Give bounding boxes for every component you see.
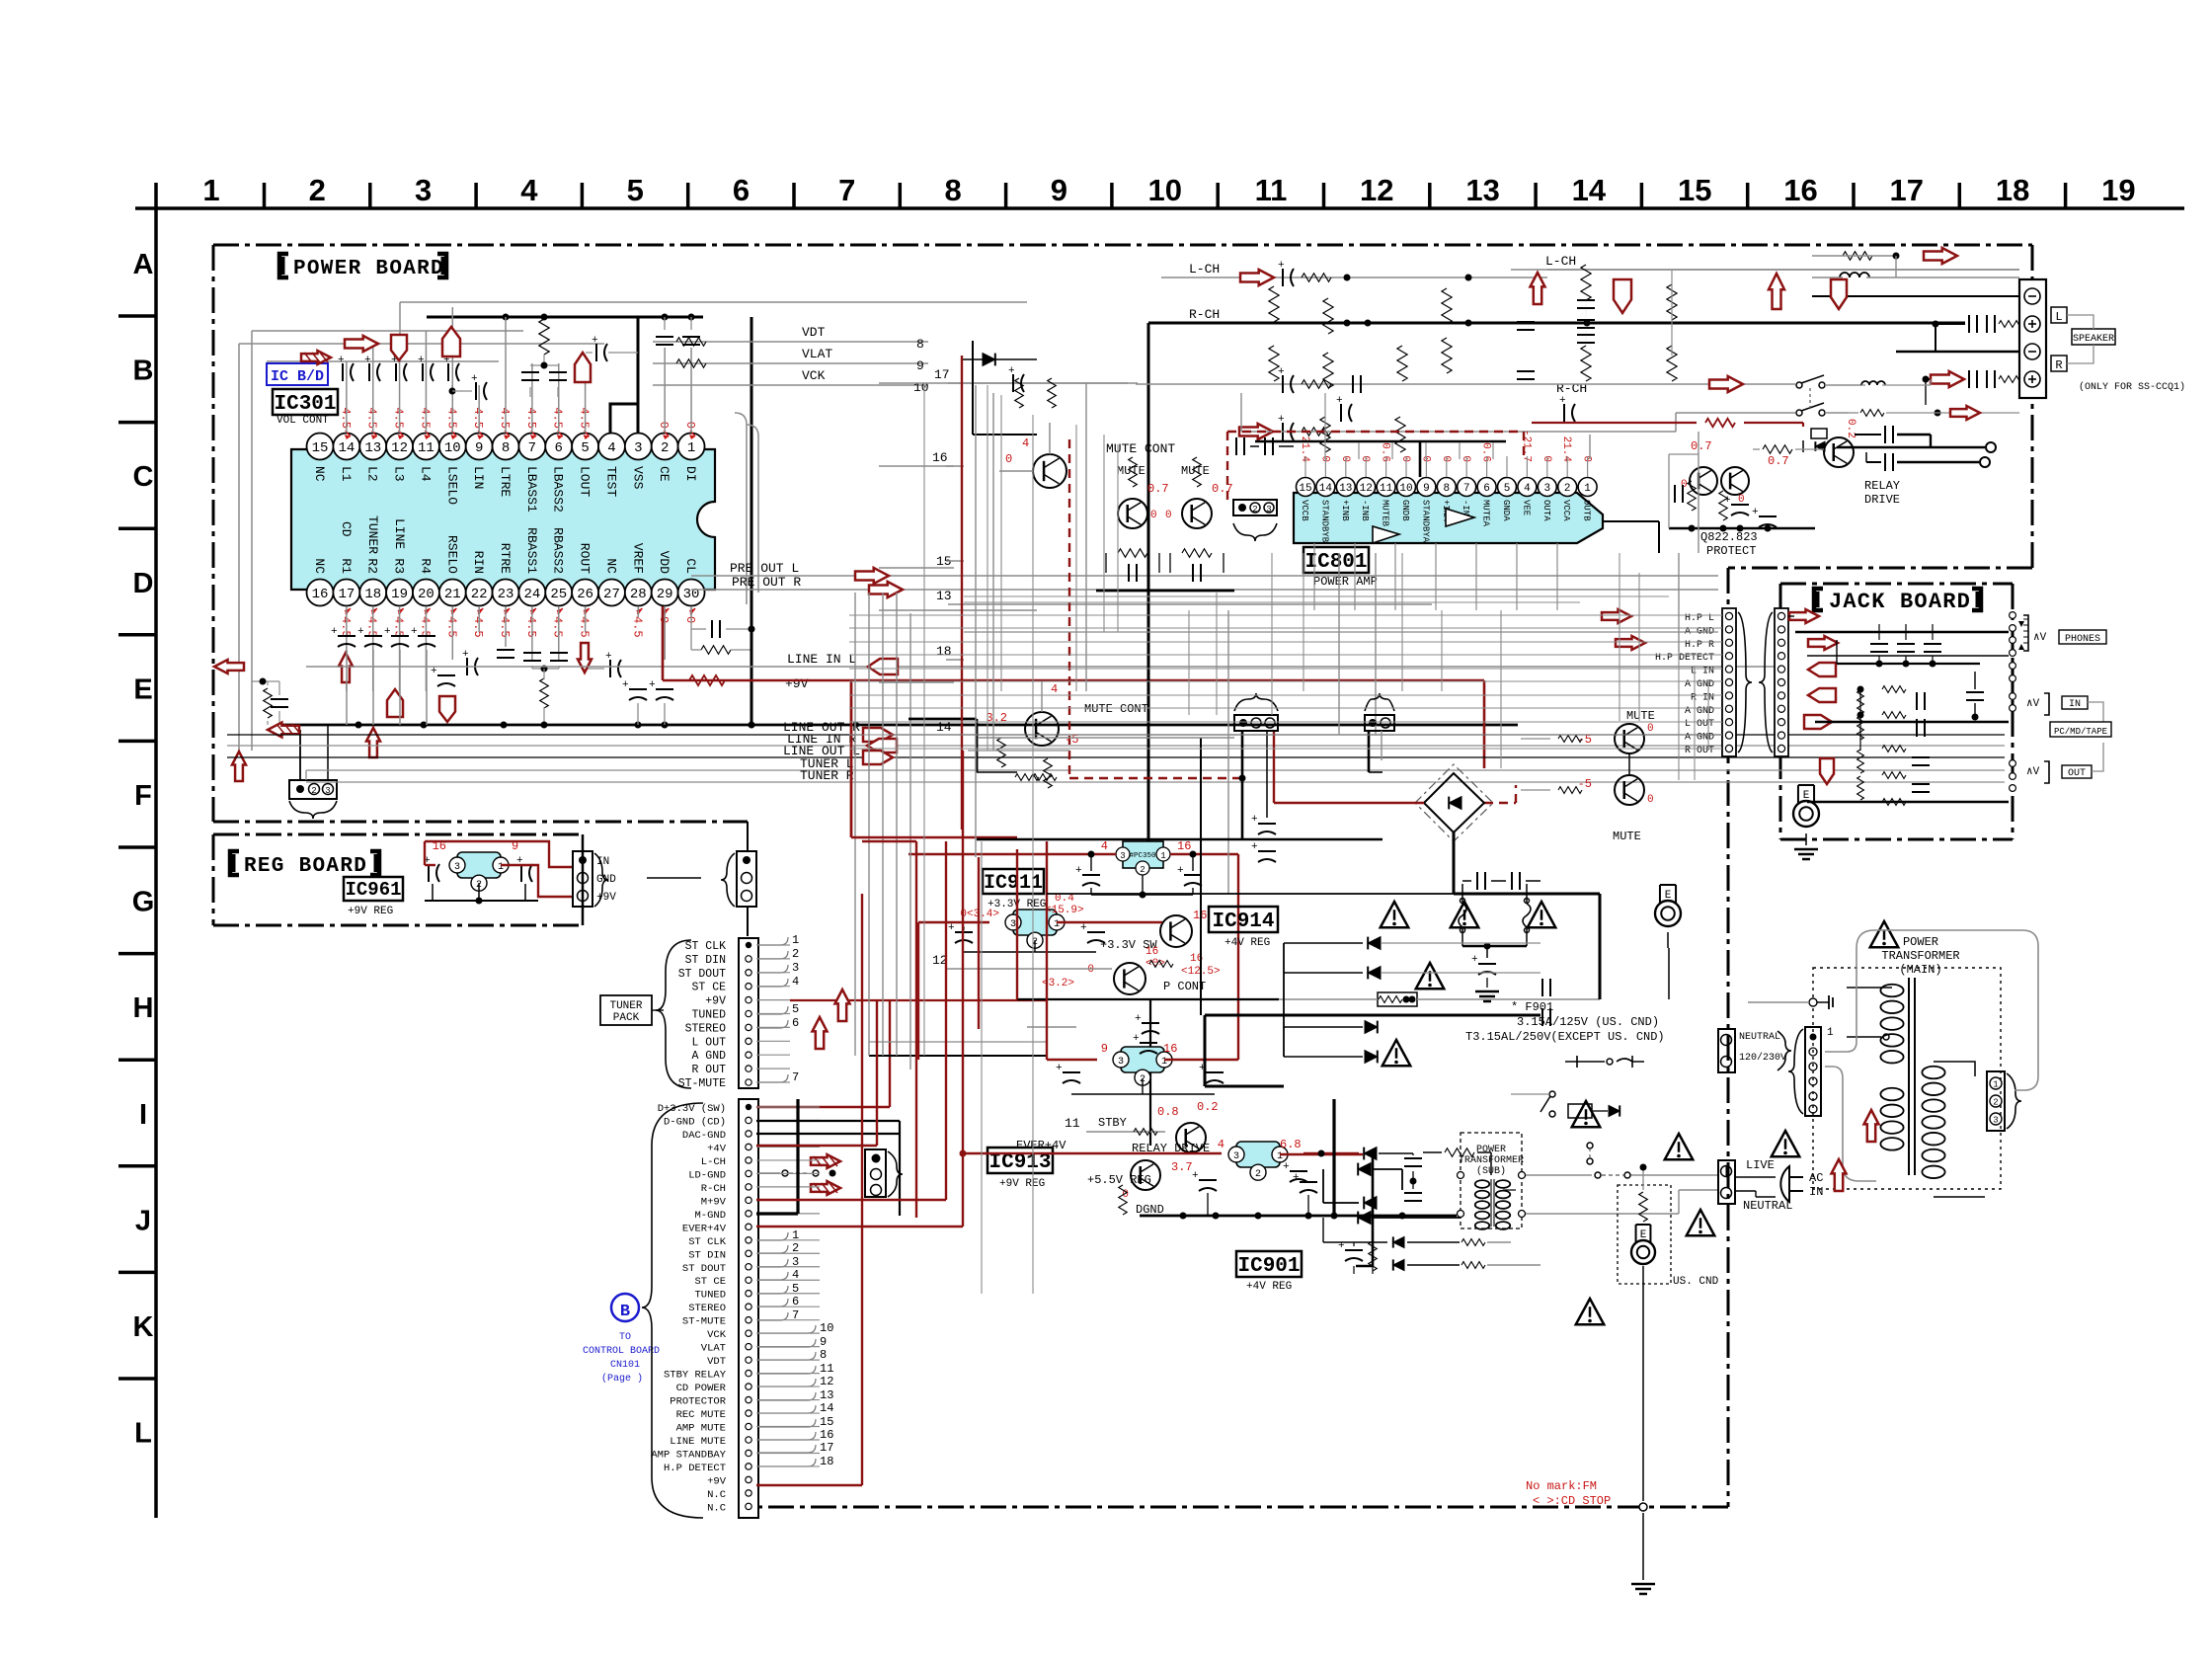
svg-text:+: + [1192, 1170, 1199, 1182]
transformer main connector [1788, 1027, 1834, 1116]
speaker zobel caps L [1933, 315, 2023, 333]
svg-text:6: 6 [555, 440, 563, 456]
PHONES label box [2059, 630, 2106, 645]
svg-text:3: 3 [1118, 1057, 1124, 1068]
relay drive net bottom [963, 1139, 1222, 1155]
svg-text:13: 13 [820, 1388, 833, 1402]
hatched arrow bus left [268, 723, 300, 738]
svg-text:VLAT: VLAT [701, 1343, 726, 1355]
svg-text:A GND: A GND [1685, 733, 1714, 744]
svg-text:ST DIN: ST DIN [688, 1249, 726, 1261]
svg-text:4.5: 4.5 [418, 407, 432, 429]
svg-text:0: 0 [1087, 964, 1094, 976]
svg-text:0.7: 0.7 [1147, 482, 1169, 496]
svg-text:17: 17 [934, 367, 950, 382]
resistor speaker feed top [1812, 248, 1957, 277]
svg-text:L-CH: L-CH [701, 1156, 726, 1168]
svg-text:K: K [133, 1311, 154, 1343]
svg-text:VCCB: VCCB [1300, 500, 1309, 521]
svg-text:21.4: 21.4 [1560, 436, 1572, 463]
svg-text:16: 16 [312, 587, 329, 602]
note only for SS-CCQ1 [2079, 381, 2185, 393]
net 12 line [932, 953, 1112, 969]
svg-text:NC: NC [312, 466, 327, 482]
IC301 pin 5 [572, 434, 598, 498]
node B to control board [583, 1294, 660, 1385]
svg-text:OUTA: OUTA [1541, 500, 1551, 521]
IC901 label [1236, 1251, 1302, 1293]
svg-text:VCCA: VCCA [1561, 500, 1571, 521]
svg-text:LINE MUTE: LINE MUTE [670, 1436, 726, 1448]
wire stubs from IC301 bottom pins [347, 606, 691, 691]
svg-text:VOL CONT: VOL CONT [276, 415, 329, 427]
svg-text:+: + [338, 355, 345, 366]
IC301 input select labels [339, 515, 407, 554]
transistor mute A [1117, 457, 1169, 528]
svg-text:LIVE: LIVE [1746, 1158, 1775, 1172]
svg-text:-5: -5 [1578, 777, 1592, 791]
svg-text:10: 10 [1147, 173, 1181, 207]
IC801 pin 4 [1518, 430, 1537, 515]
svg-text:Q822.823: Q822.823 [1700, 530, 1758, 544]
svg-text:1: 1 [498, 862, 504, 873]
diode rectifier stack IC901 [1303, 1148, 1491, 1266]
svg-text:EVER+4V: EVER+4V [1016, 1139, 1066, 1152]
svg-text:28: 28 [630, 587, 647, 602]
svg-text:POWER: POWER [1476, 1145, 1506, 1155]
net PRE OUT L [691, 561, 1718, 584]
svg-text:RBASS1: RBASS1 [524, 527, 539, 574]
IC301 pin 3 [625, 434, 652, 490]
SPEAKER box [2067, 315, 2115, 363]
grid ruler frame [118, 173, 2184, 1518]
transistor mute cont upper [999, 423, 1175, 488]
svg-text:3: 3 [1233, 1151, 1239, 1162]
svg-text:0: 0 [1647, 794, 1654, 806]
net VCK [653, 368, 929, 395]
IC801 power amp body [1294, 493, 1603, 543]
svg-text:16: 16 [1177, 839, 1191, 853]
svg-text:-INB: -INB [1360, 500, 1370, 521]
svg-text:CD POWER: CD POWER [676, 1383, 727, 1394]
mute transistor right A [1521, 723, 1654, 753]
P CONT bus [1017, 849, 1279, 1146]
svg-text:+: + [1724, 495, 1731, 507]
DGND bus [1192, 1170, 1317, 1216]
svg-text:H: H [133, 992, 154, 1024]
jack arrows [1602, 609, 1838, 784]
svg-text:0: 0 [1647, 723, 1654, 735]
transistor standby switch [1157, 1100, 1219, 1152]
svg-text:15: 15 [312, 440, 329, 456]
svg-text:4.5: 4.5 [578, 407, 592, 429]
svg-text:+: + [1080, 922, 1087, 934]
svg-text:CE: CE [657, 466, 671, 482]
svg-text:MUTE: MUTE [1626, 709, 1655, 723]
stack2 LD-GND dashed link [758, 1170, 836, 1177]
svg-text:PRE OUT R: PRE OUT R [732, 575, 801, 590]
svg-text:2: 2 [1993, 1098, 1998, 1108]
svg-text:LBASS2: LBASS2 [551, 466, 566, 513]
svg-text:9: 9 [475, 440, 483, 456]
wire rounded bus corners from IC301 to center [735, 383, 1128, 682]
svg-text:0.8: 0.8 [1157, 1105, 1179, 1119]
svg-text:NC: NC [603, 558, 618, 574]
IC301 pin voltage values [339, 407, 697, 637]
svg-text:MUTE: MUTE [1613, 830, 1641, 843]
IC961 label [344, 877, 403, 917]
IC801 pin 11 [1377, 442, 1395, 526]
net 14 line [978, 737, 1234, 739]
wire stubs from IC301 top pins [347, 307, 691, 433]
svg-text:1: 1 [202, 173, 219, 207]
red note CD STOP [1526, 1479, 1611, 1508]
svg-text:7: 7 [1463, 483, 1470, 495]
svg-text:11: 11 [418, 440, 434, 456]
net LINE OUT L [227, 744, 2005, 764]
relay switch contacts [1796, 375, 1861, 416]
stack2 arrows and CN [756, 1000, 903, 1197]
relay coil [1803, 419, 1856, 452]
IC301 pin 14 [333, 434, 359, 482]
svg-text:0: 0 [1339, 455, 1351, 462]
svg-text:8: 8 [502, 440, 510, 456]
connector CN 3pin near IC801 [1233, 500, 1277, 541]
svg-text:1: 1 [1827, 1027, 1834, 1039]
svg-text:E: E [133, 673, 152, 705]
svg-text:6.8: 6.8 [1280, 1138, 1302, 1151]
bottom pin red arrows [339, 643, 592, 722]
svg-text:16: 16 [820, 1428, 833, 1442]
relay drive output open terminal [1837, 426, 1996, 471]
svg-text:DI: DI [683, 466, 698, 482]
net VLAT [653, 347, 928, 373]
svg-text:NEUTRAL: NEUTRAL [1743, 1199, 1792, 1213]
svg-text:0: 0 [1165, 510, 1172, 521]
IC801 pin 15 [1297, 436, 1315, 522]
svg-text:+: + [1336, 395, 1343, 407]
svg-text:0: 0 [1005, 452, 1012, 466]
svg-text:3: 3 [1993, 1116, 1998, 1126]
svg-text:VDT: VDT [802, 325, 826, 340]
svg-text:4.5: 4.5 [498, 407, 512, 429]
svg-text:DRIVE: DRIVE [1864, 493, 1900, 507]
connector CN101 to control board [651, 1099, 758, 1518]
svg-text:ST DOUT: ST DOUT [678, 968, 726, 981]
svg-text:US. CND: US. CND [1673, 1276, 1719, 1288]
thick black battery bus [1205, 1015, 1540, 1086]
CL feedback RC [691, 606, 755, 654]
svg-text:9: 9 [1051, 173, 1067, 207]
svg-text:4.5: 4.5 [444, 407, 458, 429]
svg-text:4.5: 4.5 [365, 616, 379, 638]
svg-text:+: + [471, 373, 478, 385]
svg-text:TUNER: TUNER [609, 1000, 642, 1012]
horizontal rows upper center [964, 631, 1718, 633]
svg-text:IC911: IC911 [984, 872, 1043, 895]
svg-text:∧V: ∧V [2026, 698, 2040, 710]
svg-text:+9V REG: +9V REG [348, 906, 393, 917]
svg-text:16: 16 [1783, 173, 1817, 207]
IC801 pin 6 [1477, 442, 1496, 526]
svg-text:N.C: N.C [707, 1502, 726, 1514]
net LINE IN R [227, 732, 2005, 752]
svg-text:4: 4 [1051, 682, 1058, 696]
signal mesh verticals left band [924, 385, 1033, 1294]
svg-text:3: 3 [1120, 851, 1125, 861]
svg-text:VCK: VCK [802, 368, 826, 383]
IC914 label [1209, 907, 1278, 949]
svg-text:RELAY: RELAY [1864, 479, 1900, 493]
wire loop below IC301 [252, 678, 288, 726]
svg-text:4: 4 [607, 440, 615, 456]
net LINE OUT R [227, 720, 2005, 742]
svg-text:9: 9 [1423, 483, 1430, 495]
right side verticals [1600, 432, 1698, 999]
power transformer main title [1870, 921, 1960, 977]
svg-text:9: 9 [1101, 1042, 1108, 1056]
transformer secondary terminal [1987, 1071, 2021, 1131]
svg-text:+: + [1471, 954, 1478, 966]
svg-text:4.5: 4.5 [551, 407, 565, 429]
red signal arrows left area [214, 327, 591, 781]
svg-text:18: 18 [364, 587, 381, 602]
REG BOARD boundary [213, 834, 583, 925]
connector CN tuner pack [678, 933, 800, 1090]
svg-text:2: 2 [661, 440, 669, 456]
svg-text:IC914: IC914 [1212, 911, 1274, 933]
wire bus above IC301 [239, 302, 1027, 760]
svg-text:1: 1 [1161, 1057, 1167, 1068]
svg-text:1: 1 [1993, 1080, 1998, 1090]
svg-text:R OUT: R OUT [691, 1064, 726, 1076]
svg-text:ST CE: ST CE [694, 1276, 726, 1288]
svg-text:PROTECTOR: PROTECTOR [670, 1396, 726, 1408]
svg-text:13: 13 [1339, 483, 1352, 495]
svg-text:4.5: 4.5 [444, 616, 458, 638]
net PRE OUT R [691, 575, 1718, 597]
svg-text:4: 4 [792, 975, 799, 989]
svg-text:4: 4 [1022, 436, 1029, 450]
POWER TRANSFORMER SUB [1458, 1133, 1526, 1229]
svg-text:LOUT: LOUT [578, 466, 592, 497]
line out jack [2010, 760, 2049, 792]
US CND box [1618, 1164, 1719, 1595]
IC913 label [987, 1148, 1053, 1190]
svg-text:CL: CL [683, 558, 698, 574]
net TUNER L [306, 756, 2005, 780]
svg-text:9: 9 [916, 358, 924, 373]
svg-text:L4: L4 [418, 466, 433, 482]
IC301 pin 13 [359, 434, 386, 482]
svg-text:12: 12 [1360, 483, 1373, 495]
svg-text:+4V REG: +4V REG [1224, 937, 1270, 949]
red power vertical buses [851, 682, 979, 1485]
svg-text:15: 15 [1299, 483, 1311, 495]
svg-text:OUTB: OUTB [1582, 500, 1592, 521]
IC801 pin 12 [1357, 455, 1376, 521]
mute cont transistor center E [908, 681, 1382, 839]
svg-text:GNDA: GNDA [1501, 500, 1511, 521]
svg-text:2: 2 [1140, 865, 1145, 875]
svg-text:TO: TO [619, 1332, 631, 1343]
svg-text:4.5: 4.5 [418, 616, 432, 638]
svg-text:3.15A/125V (US. CND): 3.15A/125V (US. CND) [1517, 1015, 1659, 1029]
transistor Q822 protect [1681, 467, 1717, 495]
JACK BOARD title [1814, 589, 1981, 614]
svg-text:POWER BOARD: POWER BOARD [293, 258, 444, 280]
power board input connector [647, 851, 756, 907]
dashed mute line [968, 750, 1069, 752]
IC801 pin 3 [1538, 455, 1556, 521]
svg-text:+: + [1293, 1172, 1300, 1184]
IC301 pin 12 [386, 434, 413, 482]
svg-text:LIN: LIN [471, 466, 486, 489]
svg-text:6: 6 [1483, 483, 1490, 495]
svg-text:IC961: IC961 [345, 879, 401, 901]
mute feedback caps [1096, 549, 1234, 591]
svg-text:+: + [462, 649, 469, 661]
svg-text:PRE OUT L: PRE OUT L [730, 561, 799, 576]
svg-text:22: 22 [471, 587, 488, 602]
svg-text:L OUT: L OUT [1685, 719, 1714, 730]
svg-text:-21.7: -21.7 [1520, 430, 1532, 462]
svg-text:0: 0 [683, 422, 697, 429]
connector CN F-row [289, 725, 337, 819]
jack board connector CN right [1775, 608, 1788, 756]
svg-text:C: C [133, 461, 154, 493]
red horizontal feeders [756, 837, 1017, 1485]
cap pair above fuse area [1462, 872, 1540, 890]
regulator relay drive [1218, 1138, 1363, 1182]
svg-text:CONTROL BOARD: CONTROL BOARD [583, 1346, 660, 1357]
IC801 pin 9 [1417, 455, 1436, 542]
net R-CH right [1136, 366, 1795, 440]
svg-text:TRANSFORMER: TRANSFORMER [1459, 1155, 1524, 1166]
svg-text:4.5: 4.5 [339, 407, 353, 429]
svg-text:0: 0 [1460, 455, 1471, 462]
IC301 pin 16 [307, 558, 334, 605]
svg-text:+: + [1278, 366, 1285, 378]
svg-text:VDT: VDT [707, 1356, 726, 1368]
svg-text:3.7: 3.7 [1171, 1160, 1193, 1174]
capacitors near pins 2-1 [656, 317, 700, 345]
svg-text:B: B [133, 356, 154, 387]
POWER BOARD boundary [213, 245, 2032, 1507]
DGND bus IC901 [1140, 1213, 1457, 1220]
svg-text:TUNED: TUNED [691, 1009, 726, 1022]
svg-text:JACK BOARD: JACK BOARD [1829, 590, 1971, 614]
ground stub above transformer connector [1748, 995, 1833, 1009]
svg-text:0: 0 [657, 422, 671, 429]
svg-text:19: 19 [391, 587, 408, 602]
svg-text:ST DOUT: ST DOUT [682, 1263, 726, 1275]
svg-text:4: 4 [1524, 483, 1531, 495]
capacitor near fuse [1462, 943, 1527, 1002]
svg-text:3: 3 [792, 961, 799, 975]
wires from IC801 to right [1255, 435, 1659, 553]
svg-text:POWER: POWER [1903, 935, 1938, 949]
svg-text:VREF: VREF [630, 543, 645, 574]
svg-text:AMP STANDBAY: AMP STANDBAY [651, 1449, 726, 1461]
svg-text:0: 0 [1540, 455, 1552, 462]
svg-text:R-CH: R-CH [701, 1183, 726, 1195]
regulator IC911 [918, 893, 1126, 952]
svg-text:4.5: 4.5 [339, 616, 353, 638]
svg-text:11: 11 [1380, 483, 1393, 495]
svg-text:5: 5 [627, 173, 644, 207]
power transformer main dotted box [1813, 968, 2001, 1189]
svg-text:F: F [134, 780, 152, 812]
IC301 pin 1 [678, 434, 705, 482]
svg-text:18: 18 [1996, 173, 2029, 207]
caps near connectors E-row [1242, 731, 1382, 862]
svg-text:120/230V: 120/230V [1739, 1052, 1786, 1064]
svg-text:ST CLK: ST CLK [688, 1236, 727, 1248]
op-amp IC301 body [291, 449, 715, 590]
svg-text:3.2: 3.2 [986, 711, 1007, 725]
svg-text:0: 0 [1440, 455, 1452, 462]
red dashed standby net [1069, 432, 1524, 803]
svg-text:PACK: PACK [613, 1012, 640, 1024]
svg-text:12: 12 [820, 1375, 833, 1388]
svg-text:0.7: 0.7 [1212, 482, 1233, 496]
IC B/D label [267, 363, 328, 385]
ground bus below IC301 [279, 317, 1518, 729]
svg-text:R OUT: R OUT [1685, 746, 1714, 756]
svg-text:R: R [2055, 358, 2062, 372]
svg-text:L: L [134, 1418, 152, 1450]
fuse F901 symbol [1027, 992, 1600, 1027]
svg-text:VEE: VEE [1521, 500, 1531, 515]
svg-text:+9V: +9V [785, 676, 809, 691]
center verticals [1047, 553, 1376, 1060]
IC301 volume control label [273, 389, 338, 427]
svg-text:+: + [605, 651, 612, 663]
svg-text:+: + [384, 626, 391, 638]
net R-CH top thick [1148, 307, 1965, 841]
svg-text:+INB: +INB [1340, 500, 1350, 521]
svg-text:23: 23 [498, 587, 514, 602]
svg-text:4.5: 4.5 [365, 407, 379, 429]
IC801 pin 8 [1437, 455, 1456, 521]
svg-text:RBASS2: RBASS2 [551, 527, 566, 574]
svg-text:GNDB: GNDB [1400, 500, 1410, 521]
F901 fuse note [1465, 1000, 1665, 1044]
fuse resistor pair [1459, 884, 1531, 946]
IC301 pin 19 [386, 558, 413, 605]
svg-text:4.5: 4.5 [524, 616, 538, 638]
svg-text:PHONES: PHONES [2065, 634, 2100, 645]
IC301 pin 10 [439, 434, 466, 506]
svg-text:16: 16 [1145, 946, 1158, 958]
center top verticals to IC801 [1325, 393, 1493, 459]
svg-text:4: 4 [1101, 839, 1108, 853]
net LINE IN L [306, 652, 1787, 674]
svg-text:+: + [411, 626, 418, 638]
svg-text:T3.15AL/250V(EXCEPT US. CND): T3.15AL/250V(EXCEPT US. CND) [1465, 1030, 1665, 1044]
IC301 pin 6 [545, 434, 572, 513]
svg-text:1: 1 [687, 440, 695, 456]
svg-text:0: 0 [1399, 455, 1411, 462]
svg-text:(SUB): (SUB) [1476, 1165, 1506, 1177]
svg-text:+: + [1135, 1013, 1142, 1025]
svg-text:+: + [1075, 865, 1082, 877]
CN101 pin numbers [758, 1228, 833, 1468]
svg-text:NEUTRAL: NEUTRAL [1739, 1032, 1780, 1043]
svg-text:2: 2 [311, 786, 316, 796]
svg-text:7: 7 [528, 440, 536, 456]
